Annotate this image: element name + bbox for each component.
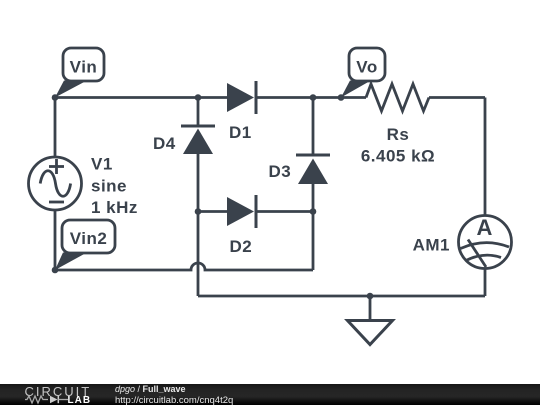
svg-text:Vin2: Vin2 <box>70 229 108 248</box>
wire top rail right <box>258 96 367 99</box>
wire Vin2 rail with hop <box>55 263 313 270</box>
svg-text:sine: sine <box>91 177 127 196</box>
node Vo junction <box>338 94 345 101</box>
node label Vin <box>55 48 104 98</box>
wire lower bridge rail left <box>198 210 227 213</box>
wire ground rail <box>198 295 485 298</box>
svg-text:AM1: AM1 <box>413 236 450 255</box>
node label Vo <box>341 48 385 98</box>
node Vin2 junction <box>52 267 59 274</box>
wire top rail left <box>55 96 227 99</box>
node label Vin2 <box>55 220 115 270</box>
svg-text:Vo: Vo <box>356 58 377 77</box>
resistor Rs labels <box>361 125 435 166</box>
node Vin junction <box>52 94 59 101</box>
node top-right bridge junction <box>310 94 317 101</box>
footer logo glyph <box>25 396 48 403</box>
wire ammeter bottom to ground rail <box>484 269 487 297</box>
diode D1 <box>227 81 256 114</box>
wire right bridge column bottom <box>312 184 315 212</box>
diode D4 <box>181 126 215 154</box>
wire right bridge column top <box>312 98 315 155</box>
diode D2 <box>227 195 256 228</box>
svg-text:A: A <box>477 215 493 240</box>
svg-text:1 kHz: 1 kHz <box>91 198 138 217</box>
wire lower bridge rail right <box>258 210 314 213</box>
wire V1 top lead <box>54 98 57 158</box>
ground <box>348 296 393 345</box>
svg-text:http://circuitlab.com/cnq4t2q: http://circuitlab.com/cnq4t2q <box>115 395 233 405</box>
wire V1 bottom lead <box>54 210 57 270</box>
ammeter AM1 <box>459 215 512 269</box>
wire left bridge column top <box>197 98 200 126</box>
wire resistor to right column <box>429 96 485 99</box>
wire left bridge column down to ground rail <box>197 154 200 296</box>
node lower-right bridge junction <box>310 208 317 215</box>
svg-text:6.405 kΩ: 6.405 kΩ <box>361 147 435 166</box>
V1 value labels <box>91 155 138 218</box>
svg-text:D1: D1 <box>229 123 252 142</box>
node top-left bridge junction <box>195 94 202 101</box>
svg-text:dpgo / Full_wave: dpgo / Full_wave <box>115 384 186 394</box>
diode D3 <box>296 155 330 184</box>
wire right column down to ammeter <box>484 98 487 216</box>
node ground junction <box>367 293 374 300</box>
resistor Rs <box>366 84 429 111</box>
svg-text:D3: D3 <box>269 162 292 181</box>
footer bar <box>0 384 540 405</box>
voltage source V1 <box>29 157 82 210</box>
wire riser Vin2 to bridge <box>312 212 315 271</box>
svg-text:Vin: Vin <box>70 58 98 77</box>
svg-text:Rs: Rs <box>387 125 410 144</box>
svg-text:V1: V1 <box>91 155 113 174</box>
svg-text:LAB: LAB <box>68 395 92 405</box>
svg-text:D2: D2 <box>230 237 253 256</box>
svg-text:D4: D4 <box>153 134 176 153</box>
node lower-left bridge junction <box>195 208 202 215</box>
